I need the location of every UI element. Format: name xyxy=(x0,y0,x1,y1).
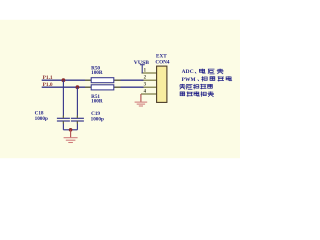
connector CON4 pin 1 xyxy=(142,72,157,74)
ground symbol (left) xyxy=(70,130,72,138)
wire net P1.1 to pin2 xyxy=(42,79,144,81)
svg-text:100R: 100R xyxy=(91,99,103,105)
wire VUSB to pin1 xyxy=(141,65,143,74)
wire junction2 down to C19 xyxy=(76,87,78,118)
capacitor C18 xyxy=(57,117,70,119)
R50 pin stub right xyxy=(114,79,121,81)
junction on wire2 xyxy=(76,85,80,89)
wire C19 bottom lead xyxy=(76,121,78,129)
connector EXT CON4 body xyxy=(157,66,167,102)
C19 pin stub top xyxy=(76,116,78,118)
wire net P1.0 to pin3 xyxy=(42,86,144,88)
R51 pin stub left xyxy=(85,86,91,88)
capacitor C19 xyxy=(71,117,84,119)
annotation text line 4: incremental encoder xyxy=(180,92,185,96)
junction on wire1 xyxy=(62,78,66,82)
resistor R51 xyxy=(91,85,114,90)
svg-text:1000p: 1000p xyxy=(91,116,104,122)
connector CON4 pin 4 xyxy=(141,93,157,95)
wire joining C18/C19 bottoms xyxy=(63,129,77,131)
svg-text:P1.1: P1.1 xyxy=(43,75,53,81)
connector CON4 pin 2 xyxy=(142,79,157,81)
annotation text line 3: ultrasonic ranging xyxy=(179,84,185,89)
svg-text:PWM: PWM xyxy=(182,77,196,83)
svg-text:100R: 100R xyxy=(91,70,103,76)
R51 pin stub right xyxy=(114,86,121,88)
wire C18 bottom lead xyxy=(62,121,64,129)
C19 pin stub bottom xyxy=(76,121,78,123)
C18 pin stub bottom xyxy=(62,121,64,123)
svg-text:P1.0: P1.0 xyxy=(43,82,53,88)
resistor R50 xyxy=(91,78,114,83)
connector CON4 pin 3 xyxy=(142,86,157,88)
C18 pin stub top xyxy=(62,116,64,118)
svg-text:1000p: 1000p xyxy=(35,116,48,122)
svg-text:ADC: ADC xyxy=(182,69,194,75)
R50 pin stub left xyxy=(85,79,91,81)
VUSB bar xyxy=(140,64,145,66)
schematic sheet background xyxy=(0,20,240,158)
ground symbol (right) xyxy=(135,101,148,103)
junction at ground stem xyxy=(69,128,73,132)
svg-text:CON4: CON4 xyxy=(155,60,170,66)
wire junction1 down to C18 xyxy=(62,80,64,118)
wire pin4 to ground xyxy=(140,94,142,102)
